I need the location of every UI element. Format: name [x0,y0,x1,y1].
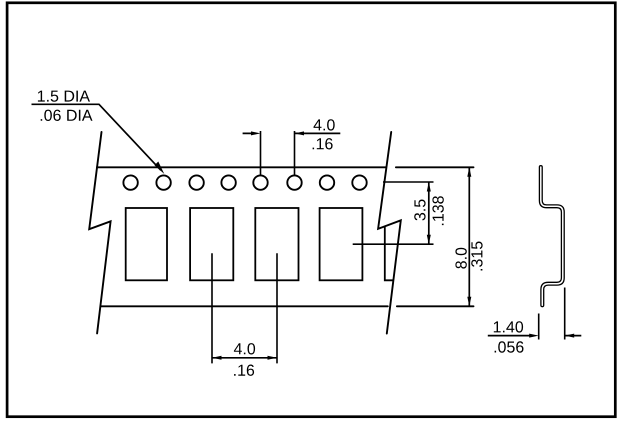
label ".056" [495,341,524,352]
pocket 3 [255,208,298,280]
sprocket hole 8 [352,175,366,189]
label "4.0" [234,343,255,354]
label "4.0" [314,119,335,130]
pocket 1 [126,208,167,280]
far right dimension 8.0 / .315 (tape width) [455,167,482,306]
tape top edge [97,166,474,168]
component pockets [126,208,393,280]
sprocket holes [123,175,366,189]
top dimension 4.0 / .16 (sprocket pitch) [243,119,341,175]
leader 1.5 DIA / .06 DIA [32,91,165,174]
sprocket hole 6 [287,175,301,189]
sprocket hole 1 [123,175,137,189]
sprocket hole 3 [189,175,203,189]
label "3.5" [414,200,425,221]
pocket 5 (partial, cut by break) [385,227,393,280]
label "1.5 DIA" [38,91,90,102]
label ".06 DIA" [41,110,93,121]
side view cross-section profile [541,167,563,305]
pocket 4 [320,208,363,280]
left break line [89,132,110,333]
label ".315" [471,242,482,271]
label "8.0" [455,248,466,269]
label ".138" [432,196,443,225]
sprocket hole 7 [320,175,334,189]
pocket 2 [190,208,233,280]
bottom dimension 4.0 / .16 (pocket pitch) [212,253,277,376]
label ".16" [234,365,254,376]
right dimension 3.5 / .138 (hole center to pocket center) [353,182,444,244]
side view dimension 1.40 / .056 (thickness) [488,288,582,353]
sprocket hole 2 [156,175,170,189]
label "1.40" [494,321,523,332]
sprocket hole 5 [253,175,267,189]
right break line [378,132,401,334]
tape bottom edge [101,305,474,307]
sprocket hole 4 [221,175,235,189]
label ".16" [313,138,333,149]
